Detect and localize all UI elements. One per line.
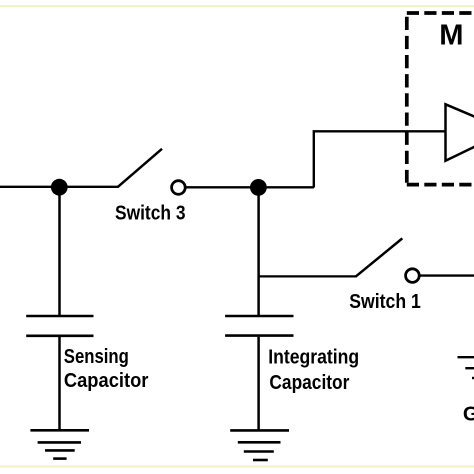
svg-text:Capacitor: Capacitor xyxy=(269,372,349,394)
svg-text:M: M xyxy=(439,20,463,52)
svg-text:Capacitor: Capacitor xyxy=(64,370,149,392)
svg-text:Integrating: Integrating xyxy=(268,346,359,368)
svg-text:Switch 3: Switch 3 xyxy=(115,203,186,225)
svg-text:Switch 1: Switch 1 xyxy=(349,291,421,313)
svg-text:Sensing: Sensing xyxy=(64,346,129,368)
svg-text:G: G xyxy=(463,403,474,426)
